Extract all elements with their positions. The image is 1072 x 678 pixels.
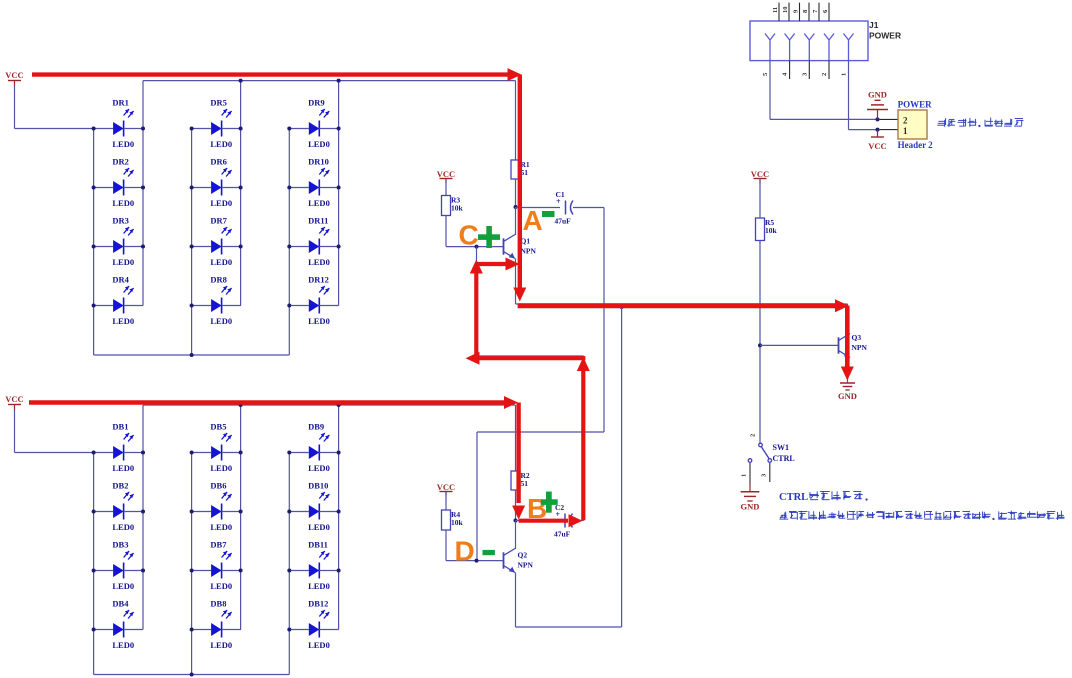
node B polarity plus [541,492,558,513]
junction DB left rail col1 row2 [92,510,96,514]
LED DB6 [192,480,241,532]
svg-text:LED0: LED0 [112,522,134,532]
svg-text:NPN: NPN [852,343,868,352]
pin 11 of J1 [772,3,779,21]
node B junction (Q2 collector) [514,519,518,523]
wire DR bank bottom rail [94,354,290,356]
LED DB4 [94,598,143,650]
svg-text:2: 2 [750,434,757,437]
wire DB bank left rail col1 [93,453,95,675]
wire DR bank left rail col2 [191,129,193,356]
LED DR9 [289,97,338,149]
wire top rail drop to R1 [515,81,517,160]
junction DB left rail col2 row1 [190,451,194,455]
pin 7 of J1 [812,3,819,21]
svg-text:VCC: VCC [868,141,886,151]
svg-text:NPN: NPN [518,561,534,570]
junction left rail col2 row4 [190,304,194,308]
wire feedback across [477,355,584,357]
wire R1 to node A [515,179,517,207]
svg-text:Header 2: Header 2 [898,140,934,150]
wire Q3 emitter to ground [847,358,849,384]
junction right rail col1 row2 [141,186,145,190]
svg-text:1: 1 [841,73,848,76]
power port VCC (header) [868,130,886,151]
node A polarity minus [542,211,555,217]
LED DB8 [192,598,241,650]
wire feedback Q1 base down [476,247,478,356]
svg-text:GND: GND [868,90,887,100]
node C polarity plus [478,226,500,248]
wire red highlight VCC top rail [32,68,522,81]
wire DR bank left rail col1 [93,129,95,356]
svg-text:VCC: VCC [5,394,23,404]
svg-text:DB3: DB3 [112,539,128,549]
svg-text:2: 2 [903,116,908,126]
svg-text:LED0: LED0 [210,463,232,473]
svg-text:DB12: DB12 [308,598,328,608]
pin 4 of J1 [782,34,795,80]
ground symbol GND [838,383,857,401]
wire C2 right to feedback rail [573,520,584,522]
LED DR8 [192,274,241,326]
svg-text:LED0: LED0 [308,581,330,591]
svg-text:DR4: DR4 [112,274,129,284]
power port VCC (R4) [437,482,455,497]
wire R5 down to SW1 [759,241,761,444]
wire Q2 collector to node B [515,521,517,550]
LED DR5 [192,97,241,149]
svg-text:DR8: DR8 [210,274,227,284]
junction Q3 base tee [758,343,762,347]
junction right rail col3 row1 [337,127,341,131]
svg-text:10k: 10k [765,226,778,235]
junction left rail col2 row1 [190,127,194,131]
junction DB right rail col2 row3 [239,569,243,573]
wire C1 right to down rail [573,207,604,209]
connector J1 POWER [750,20,901,61]
junction right rail col2 row3 [239,245,243,249]
wire R3 to Q1 base [445,216,447,247]
LED DB2 [94,480,143,532]
LED DR7 [192,215,241,267]
wire C1 coupling across [477,431,604,433]
junction DB left rail col3 row1 [287,451,291,455]
junction left rail col2 row3 [190,245,194,249]
junction DB left rail col2 row2 [190,510,194,514]
wire node B to C2 [516,520,560,522]
power port VCC (R3) [437,169,455,184]
junction left rail col3 row4 [287,304,291,308]
svg-text:DR2: DR2 [112,156,129,166]
wire DR bank left rail col3 [288,129,290,356]
svg-text:DB6: DB6 [210,480,226,490]
svg-text:VCC: VCC [437,482,455,492]
junction right rail col1 row1 [141,127,145,131]
junction left rail col1 row1 [92,127,96,131]
power port VCC (R5) [751,169,769,184]
svg-text:1: 1 [903,126,908,136]
svg-text:10k: 10k [451,518,464,527]
svg-text:DB11: DB11 [308,539,328,549]
pin 5 of J1 [762,34,775,77]
svg-text:LED0: LED0 [308,463,330,473]
svg-text:VCC: VCC [437,169,455,179]
wire Q2 emitter up to node [621,304,623,627]
svg-text:B: B [527,493,547,524]
pin 8 of J1 [802,3,809,21]
LED DB12 [289,598,338,650]
junction DB right rail col2 row1 [239,451,243,455]
svg-text:DB1: DB1 [112,421,128,431]
svg-text:LED0: LED0 [210,581,232,591]
LED DR10 [289,156,338,208]
wire red highlight VCC bottom rail [29,396,518,409]
junction emitter node / Q2 emitter branch [620,305,624,309]
wire DR bank right rail col3 [338,81,340,306]
svg-text:VCC: VCC [751,169,769,179]
node A junction (Q1 collector) [514,205,518,209]
LED DR3 [94,215,143,267]
LED DB11 [289,539,338,591]
svg-text:DB8: DB8 [210,598,226,608]
junction DB right rail col1 row1 [141,451,145,455]
svg-text:LED0: LED0 [112,640,134,650]
svg-text:LED0: LED0 [112,463,134,473]
svg-text:DB7: DB7 [210,539,227,549]
LED DB9 [289,421,338,473]
svg-text:10: 10 [782,7,789,14]
svg-text:LED0: LED0 [112,139,134,149]
svg-text:CTRL: CTRL [773,454,795,463]
svg-text:DR5: DR5 [210,97,227,107]
junction left rail col2 row2 [190,186,194,190]
svg-text:LED0: LED0 [308,522,330,532]
junction bottom rail col2 [190,353,194,357]
resistor R5 (10k) [756,218,778,241]
note: how to control the switch (Chinese) [779,511,1064,520]
resistor R3 (10k) [442,196,464,216]
svg-text:LED0: LED0 [210,257,232,267]
wire red highlight node B to C2 [519,514,583,527]
svg-text:DR10: DR10 [308,156,329,166]
junction DB left rail col1 row1 [92,451,96,455]
wire DB bank left rail col3 [288,453,290,675]
transistor Q3 NPN [839,333,868,358]
node D junction (Q2 base) [475,559,479,563]
capacitor C1 (47uF) [555,190,574,226]
resistor R1 (51) [511,160,530,179]
svg-text:NPN: NPN [521,247,537,256]
svg-text:LED0: LED0 [112,257,134,267]
junction DB right rail col1 row3 [141,569,145,573]
wire red highlight Q3 down to GND [841,306,854,381]
ground symbol below SW1 [741,484,760,512]
wire Q1 collector to node A [515,207,517,235]
LED DR6 [192,156,241,208]
svg-text:POWER: POWER [898,100,933,110]
transistor Q2 NPN [504,549,534,573]
svg-text:47uF: 47uF [555,217,572,226]
connector P1 Header 2 [898,100,934,151]
junction left rail col3 row1 [287,127,291,131]
pin 3 of SW1 [769,463,771,482]
wire R4 to Q2 base [445,530,447,561]
LED DR11 [289,215,338,267]
svg-text:D: D [455,536,475,567]
pin 9 of J1 [793,3,800,21]
wire VCC to R3 [445,179,447,196]
svg-text:DB4: DB4 [112,598,129,608]
wire DB bank right rail col2 [240,405,242,630]
junction DB left rail col1 row4 [92,628,96,632]
svg-text:LED0: LED0 [308,257,330,267]
power port VCC (top-left) [5,70,23,86]
svg-text:2: 2 [821,73,828,76]
note: CTRL no soldering needed (Chinese) [779,491,868,503]
resistor R4 (10k) [442,510,464,530]
junction right rail col1 row3 [141,245,145,249]
wire red highlight feedback across [466,352,586,365]
svg-text:GND: GND [838,391,857,401]
note: power plug orientation (Chinese) [937,118,1023,127]
wire VCC to R5 [759,179,761,218]
svg-text:LED0: LED0 [308,139,330,149]
wire to Q3 base [760,344,839,346]
junction DB right rail col2 row2 [239,510,243,514]
svg-text:LED0: LED0 [308,316,330,326]
svg-text:J1: J1 [869,20,879,30]
junction DB top rail col3 [337,403,341,407]
svg-text:+: + [556,510,561,519]
wire VCC feed to DB bank [14,410,16,453]
LED DR2 [94,156,143,208]
svg-text:DB9: DB9 [308,421,324,431]
junction DB left rail col3 row3 [287,569,291,573]
svg-text:A: A [523,205,543,236]
wire top rail of DR bank [143,80,516,82]
svg-text:LED0: LED0 [112,198,134,208]
wire DB bank left rail col2 [191,453,193,675]
pin 1 of SW1 [749,463,751,484]
wire DB bank bottom rail [94,674,290,676]
wire R2 to node B [515,490,517,521]
svg-text:DR6: DR6 [210,156,227,166]
junction DB right rail col1 row2 [141,510,145,514]
wire C1 coupling down [603,208,605,433]
svg-text:+: + [556,197,561,206]
svg-text:LED0: LED0 [308,640,330,650]
junction DB left rail col2 row4 [190,628,194,632]
wire J1 pin1 to header pin1 [848,61,850,130]
switch SW1 CTRL [741,434,795,484]
svg-text:C: C [459,219,479,250]
node D polarity minus [483,550,495,555]
svg-text:51: 51 [521,479,529,488]
svg-text:LED0: LED0 [308,198,330,208]
svg-text:1: 1 [741,474,748,477]
svg-text:LED0: LED0 [210,316,232,326]
wire DR bank right rail col1 [142,81,144,306]
wire DB bank right rail col3 [338,405,340,630]
svg-text:10k: 10k [451,204,464,213]
wire DB bank right rail col1 [142,405,144,630]
junction right rail col2 row1 [239,127,243,131]
svg-text:DR9: DR9 [308,97,325,107]
junction DB left rail col3 row2 [287,510,291,514]
pin 10 of J1 [782,3,789,21]
wire VCC feed to DR bank [14,86,16,129]
svg-text:DB10: DB10 [308,480,328,490]
wire VCC to R4 [445,492,447,510]
wire top rail of DB bank [143,404,516,406]
svg-text:LED0: LED0 [210,198,232,208]
svg-text:GND: GND [741,502,760,512]
junction left rail col1 row2 [92,186,96,190]
wire C1 coupling to Q2 base [476,432,478,561]
junction left rail col3 row3 [287,245,291,249]
junction right rail col3 row2 [337,186,341,190]
svg-text:DR11: DR11 [308,215,328,225]
pin 3 of J1 [801,34,814,80]
junction left rail col3 row2 [287,186,291,190]
transistor Q1 NPN [504,235,537,259]
LED DR1 [94,97,143,149]
svg-text:DR7: DR7 [210,215,227,225]
wire red highlight down through R1/Q1 [513,75,526,302]
wire node A to C1 [516,207,561,209]
svg-text:VCC: VCC [5,70,23,80]
LED DB3 [94,539,143,591]
power port VCC (bottom-left) [5,394,23,410]
pin 1 of J1 [841,34,854,77]
wire Q2 emitter down [515,573,517,628]
svg-text:LED0: LED0 [210,640,232,650]
wire red highlight base drive into Q1 [476,258,519,271]
capacitor C2 (47uF) [554,503,573,539]
svg-text:47uF: 47uF [554,530,571,539]
LED DB10 [289,480,338,532]
resistor R2 (51) [511,471,530,490]
LED DR12 [289,274,338,326]
junction DB bottom rail col2 [190,673,194,677]
wire Q2 emitter bottom across [516,626,622,628]
junction right rail col3 row3 [337,245,341,249]
wire red highlight feedback from B up [577,357,590,520]
wire emitter node across to Q3 [516,303,848,305]
LED DB1 [94,421,143,473]
wire top rail drop to R2 [515,405,517,471]
pin 2 of J1 [821,34,834,80]
svg-text:SW1: SW1 [773,443,789,452]
LED DR4 [94,274,143,326]
LED DB5 [192,421,241,473]
svg-text:LED0: LED0 [210,522,232,532]
svg-text:DR1: DR1 [112,97,129,107]
wire DR bank right rail col2 [240,81,242,306]
svg-text:DR3: DR3 [112,215,129,225]
svg-text:11: 11 [772,7,779,13]
junction DB left rail col3 row4 [287,628,291,632]
wire feedback down to C2 right [583,356,585,521]
wire red highlight feedback up (C) [470,260,483,359]
junction DB right rail col3 row3 [337,569,341,573]
junction top rail col3 [337,79,341,83]
junction right rail col2 row2 [239,186,243,190]
pin 6 of J1 [822,3,829,21]
junction left rail col1 row3 [92,245,96,249]
node C junction (Q1 base) [475,245,479,249]
ground symbol GND (header tap) [867,90,888,120]
svg-text:DB2: DB2 [112,480,128,490]
junction DB left rail col2 row3 [190,569,194,573]
svg-text:DB5: DB5 [210,421,226,431]
wire J1 pin5 to header pin2 [769,61,771,120]
LED DB7 [192,539,241,591]
wire red highlight down through R2 [512,403,525,520]
junction DB right rail col3 row1 [337,451,341,455]
svg-text:Q2: Q2 [518,551,528,560]
svg-text:LED0: LED0 [112,316,134,326]
wire Q3 collector up to node wire [847,304,849,335]
svg-text:LED0: LED0 [112,581,134,591]
svg-text:LED0: LED0 [210,139,232,149]
junction left rail col1 row4 [92,304,96,308]
junction VCC tap [876,128,880,132]
junction DB left rail col1 row3 [92,569,96,573]
junction DB top rail col2 [239,403,243,407]
junction DB right rail col3 row2 [337,510,341,514]
svg-text:Q3: Q3 [852,333,862,342]
svg-text:DR12: DR12 [308,274,329,284]
junction top rail col2 [239,79,243,83]
wire red highlight emitter node across [518,299,849,312]
svg-text:CTRL: CTRL [779,492,808,503]
svg-text:POWER: POWER [869,31,901,41]
junction GND tap [876,117,880,121]
wire Q1 emitter down [515,259,517,305]
